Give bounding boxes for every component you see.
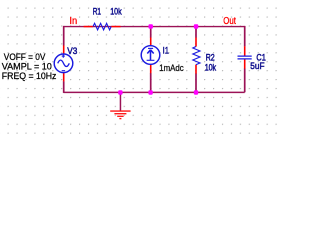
source V3 body	[54, 54, 73, 73]
pin I1 top	[150, 38, 152, 46]
wire bottom bus	[64, 91, 245, 93]
pin C1 top	[244, 46, 246, 55]
wire ground stem	[119, 92, 121, 111]
I1 bottom bar	[147, 59, 155, 61]
wire left column top	[63, 26, 65, 46]
ground symbol bars	[110, 111, 130, 119]
resistor R2 body	[193, 47, 200, 65]
resistor R1 body	[93, 23, 111, 30]
wire R2 top	[195, 26, 197, 37]
pin R1 left	[84, 26, 93, 28]
wire C1 top	[244, 26, 246, 47]
wire R2 bottom	[195, 73, 197, 92]
svg-text:10k: 10k	[205, 63, 217, 73]
svg-text:5uF: 5uF	[250, 61, 265, 71]
pin V3 bottom	[63, 73, 65, 82]
svg-text:R1: R1	[93, 7, 101, 17]
svg-text:V3: V3	[67, 46, 77, 56]
junction dot I1 top	[148, 24, 153, 29]
svg-text:In: In	[69, 16, 77, 27]
pin V3 top	[63, 46, 65, 55]
pin R1 right	[111, 26, 120, 28]
svg-text:FREQ = 10Hz: FREQ = 10Hz	[2, 71, 57, 81]
pin C1 bottom	[244, 59, 246, 68]
wire left column bottom	[63, 81, 65, 93]
source I1 body	[141, 46, 160, 65]
wire I1 top	[150, 26, 152, 38]
pin I1 bottom	[150, 64, 152, 73]
I1 arrow	[147, 50, 153, 61]
pin R2 bottom	[195, 65, 197, 74]
junction dot I1 bottom	[148, 90, 152, 94]
capacitor C1 plates	[238, 56, 252, 59]
svg-text:Out: Out	[223, 16, 236, 27]
wire C1 bottom	[244, 68, 246, 92]
svg-text:R2: R2	[206, 53, 215, 63]
V3 sine	[58, 60, 70, 66]
wire I1 bottom	[150, 73, 152, 92]
svg-text:1mAdc: 1mAdc	[159, 63, 184, 73]
pin R2 top	[195, 38, 197, 47]
V3 plus	[62, 55, 65, 58]
I1 top bar	[148, 47, 153, 49]
V3 minus	[62, 70, 65, 72]
junction dot ground	[118, 90, 122, 94]
grid background	[0, 0, 280, 134]
junction dot R2 top	[194, 24, 199, 29]
svg-text:10k: 10k	[110, 7, 122, 17]
wire top bus In-Out	[64, 26, 245, 28]
junction dot R2 bottom	[194, 90, 198, 94]
svg-text:I1: I1	[163, 46, 169, 56]
